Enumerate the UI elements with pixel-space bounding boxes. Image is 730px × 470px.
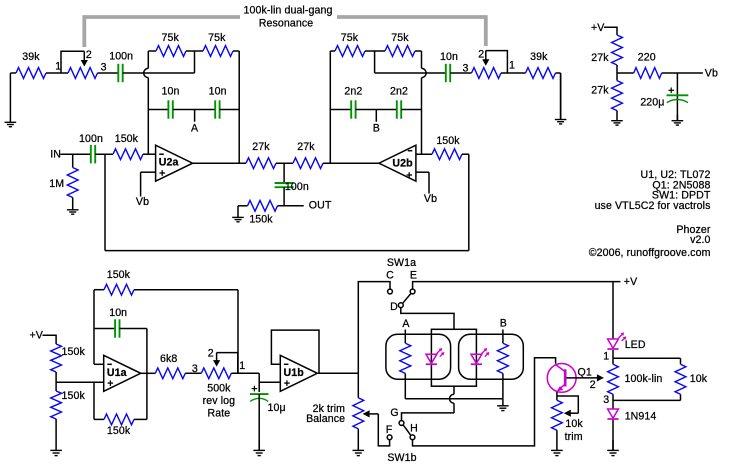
wire bbox=[462, 153, 469, 155]
wire hop (LED cathodes over LDR ground wire) bbox=[450, 386, 454, 413]
svg-text:2n2: 2n2 bbox=[344, 85, 362, 97]
svg-text:100n: 100n bbox=[109, 51, 133, 63]
ground (10k trim) bbox=[551, 430, 563, 455]
wire (10n row left) bbox=[148, 109, 168, 111]
svg-text:A: A bbox=[402, 318, 410, 330]
wire (U1a output) bbox=[141, 372, 156, 374]
label IN bbox=[50, 148, 61, 160]
wire bbox=[404, 373, 406, 398]
wire (C to U1b out) bbox=[358, 282, 390, 374]
ground (1M) bbox=[67, 198, 79, 215]
wire bbox=[95, 153, 113, 155]
capacitor 10u electrolytic bbox=[250, 386, 286, 414]
pot 100k-lin (depth) bbox=[608, 364, 663, 394]
resistor 39k (stage2) bbox=[526, 51, 556, 79]
wire bbox=[556, 73, 561, 120]
resistor 150k (LFO top feedback) bbox=[104, 269, 134, 295]
wire bbox=[356, 109, 397, 111]
resistor 150k (divider upper) bbox=[51, 344, 86, 372]
svg-text:1N914: 1N914 bbox=[625, 411, 657, 423]
resistor 150k (LFO bottom feedback) bbox=[94, 382, 147, 437]
resistor 75k (stage1 first) bbox=[156, 32, 186, 57]
svg-text:1: 1 bbox=[603, 350, 609, 362]
capacitor 10n (LFO) bbox=[109, 307, 127, 338]
svg-text:3: 3 bbox=[463, 63, 469, 75]
resistor 75k (stage2 first) bbox=[335, 32, 365, 57]
wire bbox=[55, 372, 57, 391]
wire bbox=[330, 50, 335, 52]
wire bbox=[46, 72, 68, 74]
svg-text:B: B bbox=[373, 123, 380, 135]
svg-text:+V: +V bbox=[591, 22, 605, 34]
resistor 27k (from U2b) bbox=[293, 141, 323, 169]
svg-text:Vb: Vb bbox=[705, 67, 718, 79]
wire bbox=[185, 363, 201, 375]
resistor 150k (output load) bbox=[248, 200, 278, 225]
ground (10u) bbox=[253, 440, 265, 456]
resistor 75k (stage1 second) bbox=[203, 32, 233, 57]
wire (U1a - branch) bbox=[94, 290, 104, 365]
svg-text:+V: +V bbox=[624, 276, 638, 288]
svg-text:1: 1 bbox=[239, 360, 245, 372]
svg-text:D: D bbox=[390, 301, 398, 313]
resistor 1M (input) bbox=[49, 154, 78, 197]
svg-text:10n: 10n bbox=[162, 85, 180, 97]
capacitor 10n (stage1 second) bbox=[209, 85, 227, 118]
wire (U1b output) bbox=[317, 372, 358, 374]
op-amp U1b bbox=[280, 355, 317, 391]
svg-text:H: H bbox=[410, 423, 418, 435]
wire bbox=[401, 109, 421, 111]
svg-text:10n: 10n bbox=[440, 51, 458, 63]
label Vb (supply out) bbox=[705, 67, 718, 79]
op-amp U1a bbox=[104, 355, 141, 391]
svg-text:10μ: 10μ bbox=[268, 402, 286, 414]
trimmer 2k Balance bbox=[306, 373, 378, 429]
svg-text:use VTL5C2 for vactrols: use VTL5C2 for vactrols bbox=[595, 200, 711, 212]
wire (row 3 to 10k) bbox=[613, 399, 681, 401]
resistor 150k (feedback) bbox=[432, 135, 462, 160]
wire (U2a + input to Vb) bbox=[141, 172, 156, 196]
wire bbox=[120, 328, 147, 330]
label Resonance bbox=[259, 18, 314, 30]
wire (U2b + input to Vb) bbox=[416, 172, 429, 193]
switch SW1b bbox=[386, 407, 418, 464]
wire bbox=[98, 72, 119, 74]
svg-text:E: E bbox=[410, 270, 417, 282]
ground (2k trim) bbox=[353, 429, 365, 456]
svg-text:150k: 150k bbox=[107, 269, 131, 281]
resistor 10k (parallel) bbox=[675, 358, 708, 400]
wire (to SW1b G) bbox=[402, 413, 455, 421]
svg-text:2: 2 bbox=[590, 379, 596, 391]
svg-text:6k8: 6k8 bbox=[160, 353, 177, 365]
wire (D to vactrol LEDs) bbox=[401, 308, 454, 330]
svg-text:3: 3 bbox=[101, 62, 107, 74]
svg-text:LED: LED bbox=[625, 339, 646, 351]
wire bbox=[422, 72, 446, 74]
wire bbox=[283, 187, 285, 206]
svg-text:100k-lin dual-gang: 100k-lin dual-gang bbox=[244, 5, 333, 17]
svg-text:U2a: U2a bbox=[159, 157, 179, 169]
resistor 220 bbox=[634, 51, 662, 78]
svg-text:10n: 10n bbox=[109, 307, 127, 319]
pot VR1 Resonance (stage1) 100k-lin bbox=[55, 49, 106, 78]
wire hop (stage2 right vertical over 10n wire) bbox=[422, 51, 427, 154]
svg-text:39k: 39k bbox=[22, 51, 40, 63]
switch SW1a bbox=[386, 257, 417, 313]
wire (U1b buffer feedback) bbox=[271, 330, 319, 373]
svg-text:OUT: OUT bbox=[309, 200, 332, 212]
resistor 150k (stage1 series) bbox=[113, 133, 143, 159]
svg-text:rev log: rev log bbox=[203, 395, 236, 407]
label +V (LFO) bbox=[30, 330, 44, 342]
capacitor 100n (output) bbox=[275, 181, 309, 193]
svg-text:U1b: U1b bbox=[284, 367, 305, 379]
resistor 75k (stage2 second) bbox=[385, 32, 415, 57]
svg-text:2: 2 bbox=[478, 49, 484, 61]
wire (stage2 loop left vertical) bbox=[329, 51, 331, 163]
wire bbox=[323, 162, 379, 164]
node A (vactrol A LDR) bbox=[402, 318, 410, 343]
svg-text:100n: 100n bbox=[285, 181, 309, 193]
wire bbox=[450, 72, 471, 74]
wire bbox=[134, 290, 238, 374]
wire (10n branch) bbox=[94, 328, 115, 330]
wire bbox=[143, 153, 156, 155]
ground (39k left) bbox=[5, 73, 17, 127]
svg-text:IN: IN bbox=[50, 148, 61, 160]
resistor 27k (from U2a) bbox=[246, 141, 276, 169]
svg-text:100k-lin: 100k-lin bbox=[625, 373, 663, 385]
label OUT bbox=[309, 200, 332, 212]
wire bbox=[278, 205, 304, 207]
svg-text:3: 3 bbox=[603, 394, 609, 406]
capacitor 2n2 (stage2 second) bbox=[390, 85, 408, 118]
svg-text:27k: 27k bbox=[297, 141, 315, 153]
wire bbox=[604, 27, 617, 35]
wire bbox=[616, 65, 618, 81]
resistor 150k (divider lower) bbox=[51, 390, 86, 419]
ground (1N914) bbox=[607, 440, 619, 456]
svg-text:150k: 150k bbox=[107, 425, 131, 437]
svg-text:1M: 1M bbox=[49, 178, 64, 190]
wire bbox=[10, 72, 16, 74]
capacitor 10n (stage2 in) bbox=[440, 51, 458, 82]
label +V (Vb supply) bbox=[591, 22, 605, 34]
svg-text:trim: trim bbox=[565, 431, 583, 443]
svg-text:500k: 500k bbox=[207, 383, 231, 395]
wire bbox=[415, 50, 422, 52]
wire (row 1 to 10k) bbox=[613, 357, 681, 359]
resistor 39k (stage 1) bbox=[16, 51, 46, 78]
op-amp U2a bbox=[156, 145, 193, 181]
svg-text:75k: 75k bbox=[208, 32, 226, 44]
wire (+V to LED) bbox=[612, 282, 614, 339]
wire bbox=[238, 205, 248, 207]
wire bbox=[60, 153, 91, 155]
vactrol LED loop rectangle bbox=[431, 329, 476, 386]
wire (out tap down) bbox=[283, 163, 285, 183]
LDR B bbox=[497, 343, 508, 373]
LED A (vactrol) bbox=[426, 348, 445, 364]
ground (LFO divider) bbox=[50, 419, 62, 456]
svg-text:1: 1 bbox=[509, 59, 515, 71]
resistor 27k (upper) bbox=[591, 35, 622, 65]
wire bbox=[220, 109, 240, 111]
svg-text:100n: 100n bbox=[79, 133, 103, 145]
wire (to 75k midpoint, passes hop) bbox=[123, 51, 195, 73]
wire (LDR bottoms common) bbox=[405, 398, 503, 400]
wire (stage2 75k midpoint down) bbox=[375, 51, 422, 73]
wire bbox=[612, 420, 614, 451]
svg-text:10k: 10k bbox=[565, 418, 583, 430]
svg-text:A: A bbox=[191, 123, 199, 135]
wire bbox=[173, 109, 215, 111]
wire (H to Q1 collector) bbox=[413, 358, 556, 446]
capacitor 10n (stage1 first) bbox=[162, 85, 180, 118]
svg-text:27k: 27k bbox=[252, 141, 270, 153]
svg-text:Vb: Vb bbox=[424, 193, 437, 205]
svg-text:Resonance: Resonance bbox=[259, 18, 314, 30]
capacitor 100n (stage1 in) bbox=[109, 51, 133, 83]
wire (U2a output) bbox=[193, 162, 246, 164]
label Vb (U2a) bbox=[136, 196, 149, 208]
wire (feedback left vertical) bbox=[104, 154, 106, 250]
ground (output 150k) bbox=[232, 206, 244, 222]
wire bbox=[186, 50, 203, 52]
capacitor 100n (input coupling) bbox=[79, 133, 103, 163]
svg-text:150k: 150k bbox=[115, 133, 139, 145]
resistor 6k8 bbox=[155, 353, 185, 379]
wire (feedback right vertical) bbox=[468, 154, 470, 250]
svg-text:Rate: Rate bbox=[208, 407, 231, 419]
ground (39k right) bbox=[555, 73, 567, 124]
wire bbox=[43, 335, 57, 344]
svg-text:U1a: U1a bbox=[107, 367, 127, 379]
resistor 27k (lower) bbox=[591, 81, 622, 111]
svg-text:27k: 27k bbox=[591, 52, 609, 64]
label +V (lamp) bbox=[624, 276, 638, 288]
wire (E to +V) bbox=[413, 282, 621, 290]
svg-text:75k: 75k bbox=[391, 32, 409, 44]
wire (10n/150k right vertical) bbox=[146, 329, 148, 420]
ground (220u) bbox=[672, 115, 684, 125]
vactrol B package bbox=[459, 334, 524, 379]
LED indicator bbox=[607, 332, 645, 351]
svg-text:10k: 10k bbox=[690, 373, 708, 385]
svg-text:C: C bbox=[386, 270, 394, 282]
svg-text:v2.0: v2.0 bbox=[690, 234, 710, 246]
svg-text:+V: +V bbox=[30, 330, 44, 342]
svg-text:150k: 150k bbox=[249, 213, 273, 225]
label 100k-lin dual-gang bbox=[244, 5, 333, 17]
vactrol A package bbox=[386, 334, 451, 379]
wire (Q1 base to pot wiper) bbox=[567, 374, 604, 381]
wire bbox=[94, 289, 104, 291]
wire bbox=[662, 72, 703, 74]
svg-text:Balance: Balance bbox=[306, 413, 345, 425]
svg-text:SW1a: SW1a bbox=[387, 257, 416, 269]
svg-text:2n2: 2n2 bbox=[390, 85, 408, 97]
wire bbox=[603, 350, 613, 364]
wire bbox=[148, 50, 156, 52]
wire hop (stage1 left vertical over 100n wire) bbox=[144, 51, 149, 154]
node B (vactrol B LDR) bbox=[500, 317, 507, 343]
wire (divider tap to U1a +) bbox=[56, 381, 104, 383]
svg-text:©2006, runoffgroove.com: ©2006, runoffgroove.com bbox=[589, 247, 711, 259]
wire bbox=[501, 72, 526, 74]
svg-text:2: 2 bbox=[86, 49, 92, 61]
op-amp U2b bbox=[379, 145, 416, 181]
wire (Q1 emitter) bbox=[556, 392, 558, 400]
svg-text:SW1b: SW1b bbox=[387, 452, 416, 464]
svg-text:Vb: Vb bbox=[136, 196, 149, 208]
node A bbox=[191, 110, 199, 135]
ground (27k divider) bbox=[611, 111, 623, 126]
capacitor 2n2 (stage2 first) bbox=[344, 85, 362, 118]
svg-text:27k: 27k bbox=[591, 85, 609, 97]
pot VR2 Resonance (stage2) 100k-lin bbox=[463, 49, 516, 79]
transistor Q1 2N5088 bbox=[547, 364, 596, 393]
svg-text:75k: 75k bbox=[341, 32, 359, 44]
wire (2n2 row left) bbox=[330, 109, 351, 111]
wire bbox=[603, 394, 613, 409]
wire bbox=[276, 162, 293, 164]
wire bbox=[233, 51, 239, 163]
svg-text:2: 2 bbox=[208, 348, 214, 360]
svg-text:220μ: 220μ bbox=[640, 97, 664, 109]
wire bbox=[502, 373, 504, 398]
diode 1N914 bbox=[607, 409, 656, 423]
wire bbox=[365, 50, 385, 52]
LED B (vactrol) bbox=[471, 348, 490, 364]
wire (feedback bottom run) bbox=[105, 250, 469, 252]
svg-text:150k: 150k bbox=[62, 390, 86, 402]
svg-text:10n: 10n bbox=[209, 85, 227, 97]
svg-text:Q1: Q1 bbox=[578, 367, 592, 379]
svg-text:B: B bbox=[500, 317, 507, 329]
notes text block bbox=[589, 169, 711, 259]
wire (2k wiper to F) bbox=[378, 414, 389, 446]
svg-text:150k: 150k bbox=[436, 135, 460, 147]
capacitor 220u electrolytic bbox=[640, 73, 688, 121]
svg-text:39k: 39k bbox=[530, 51, 548, 63]
svg-text:G: G bbox=[390, 407, 398, 419]
wire (to U1b + and 10u) bbox=[259, 373, 280, 392]
svg-text:150k: 150k bbox=[62, 346, 86, 358]
ground (LDRs) bbox=[497, 399, 509, 411]
wire bbox=[617, 72, 634, 74]
svg-text:220: 220 bbox=[638, 51, 656, 63]
Resonance dual-gang pot gang link (gray) bbox=[84, 17, 486, 47]
wire bbox=[231, 372, 259, 374]
svg-text:3: 3 bbox=[192, 363, 198, 375]
wire (U2b - input) bbox=[416, 153, 432, 155]
label Vb (U2b) bbox=[424, 193, 437, 205]
svg-text:1: 1 bbox=[55, 61, 61, 73]
node B bbox=[373, 110, 380, 135]
wire bbox=[258, 394, 260, 450]
LDR A bbox=[400, 343, 411, 373]
pot Rate 500k rev log bbox=[201, 348, 245, 420]
trimmer 10k bbox=[552, 396, 584, 443]
svg-text:U2b: U2b bbox=[392, 158, 413, 170]
svg-text:75k: 75k bbox=[162, 32, 180, 44]
